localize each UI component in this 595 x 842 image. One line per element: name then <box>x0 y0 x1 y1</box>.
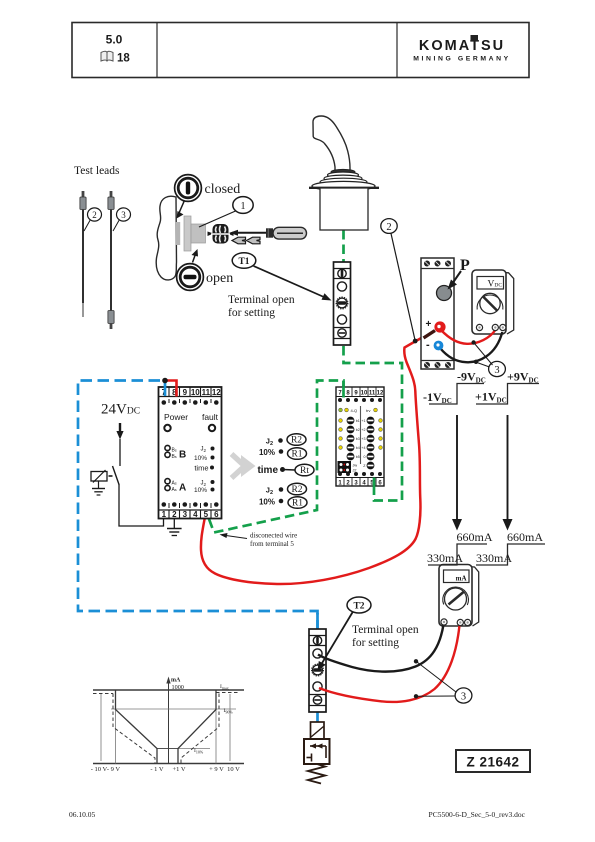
svg-text:4: 4 <box>193 510 198 519</box>
svg-text:24VDC: 24VDC <box>101 402 140 418</box>
svg-text:fault: fault <box>202 412 219 422</box>
svg-text:3: 3 <box>494 365 499 376</box>
svg-text:R2: R2 <box>291 485 302 495</box>
svg-text:PC5500-6-D_Sec_5-0_rev3.doc: PC5500-6-D_Sec_5-0_rev3.doc <box>429 810 526 819</box>
svg-text:1: 1 <box>240 201 245 212</box>
svg-text:mA: mA <box>456 575 467 583</box>
svg-text:660mA: 660mA <box>457 530 493 544</box>
svg-text:+9VDC: +9VDC <box>507 370 539 385</box>
svg-text:trv: trv <box>366 408 370 413</box>
svg-text:-: - <box>426 339 430 351</box>
svg-text:b3: b3 <box>356 437 360 441</box>
svg-text:2: 2 <box>386 222 391 233</box>
svg-text:-1VDC: -1VDC <box>423 390 452 405</box>
svg-text:2: 2 <box>172 510 177 519</box>
svg-text:b4: b4 <box>356 446 360 450</box>
svg-text:b1: b1 <box>356 419 360 423</box>
svg-text:mA: mA <box>171 678 181 684</box>
svg-text:b2: b2 <box>356 428 360 432</box>
svg-text:+2: +2 <box>361 428 365 432</box>
svg-text:open: open <box>206 271 233 286</box>
svg-text:10%: 10% <box>259 448 275 457</box>
svg-text:I90%: I90% <box>224 708 234 715</box>
svg-text:Power: Power <box>164 412 188 422</box>
svg-text:-9VDC: -9VDC <box>457 370 486 385</box>
svg-text:330mA: 330mA <box>476 551 512 565</box>
svg-text:time: time <box>257 465 278 476</box>
svg-text:2: 2 <box>92 210 97 220</box>
svg-text:disconected wire: disconected wire <box>250 532 297 540</box>
svg-text:12: 12 <box>377 391 384 397</box>
svg-text:12: 12 <box>212 388 221 397</box>
svg-text:R1: R1 <box>291 450 302 460</box>
svg-text:06.10.05: 06.10.05 <box>69 810 96 819</box>
svg-text:3: 3 <box>461 692 466 703</box>
svg-text:Jw: Jw <box>353 464 358 468</box>
svg-text:6: 6 <box>214 510 219 519</box>
svg-text:KOMATSU: KOMATSU <box>419 38 505 54</box>
svg-text:+1: +1 <box>361 419 365 423</box>
svg-text:J2: J2 <box>353 469 357 473</box>
svg-text:Test leads: Test leads <box>74 165 120 177</box>
svg-text:4-Q: 4-Q <box>351 408 358 413</box>
svg-text:Imax: Imax <box>220 684 229 691</box>
svg-text:J2: J2 <box>266 437 273 448</box>
svg-text:I10%: I10% <box>194 748 204 755</box>
svg-text:+1 V: +1 V <box>172 766 185 773</box>
svg-text:+: + <box>426 319 432 330</box>
svg-text:1000: 1000 <box>172 684 184 691</box>
svg-text:Terminal open: Terminal open <box>352 624 419 636</box>
svg-text:10%: 10% <box>194 487 207 494</box>
svg-text:T2: T2 <box>353 602 364 612</box>
svg-text:R1: R1 <box>292 499 303 509</box>
svg-text:for setting: for setting <box>228 307 275 319</box>
svg-text:10: 10 <box>191 388 200 397</box>
svg-text:+ 9 V: + 9 V <box>209 766 224 773</box>
svg-text:330mA: 330mA <box>427 551 463 565</box>
svg-text:10 V: 10 V <box>227 766 240 773</box>
svg-text:from terminal 5: from terminal 5 <box>250 540 294 548</box>
svg-text:0: 0 <box>364 455 366 459</box>
svg-text:3: 3 <box>121 210 126 220</box>
svg-text:11: 11 <box>202 388 211 397</box>
svg-text:3: 3 <box>183 510 188 519</box>
svg-text:11: 11 <box>369 391 376 397</box>
svg-text:- 10 V: - 10 V <box>91 766 108 773</box>
svg-text:18: 18 <box>117 53 130 65</box>
svg-text:Z 21642: Z 21642 <box>466 755 519 770</box>
svg-text:- 1 V: - 1 V <box>150 766 164 773</box>
svg-text:Terminal open: Terminal open <box>228 294 295 306</box>
svg-text:J2: J2 <box>266 486 273 497</box>
svg-text:time: time <box>194 464 208 473</box>
svg-text:MINING GERMANY: MINING GERMANY <box>413 56 511 63</box>
svg-text:+3: +3 <box>361 437 365 441</box>
svg-text:10%: 10% <box>259 498 275 507</box>
svg-text:B: B <box>179 450 186 461</box>
svg-text:10%: 10% <box>194 455 207 462</box>
svg-text:9: 9 <box>183 388 188 397</box>
svg-text:5: 5 <box>204 510 209 519</box>
svg-text:T1: T1 <box>238 257 249 267</box>
svg-text:J2: J2 <box>200 447 206 454</box>
svg-text:b5: b5 <box>356 455 360 459</box>
svg-text:+4: +4 <box>361 446 365 450</box>
svg-text:for setting: for setting <box>352 637 399 649</box>
svg-text:A: A <box>179 483 186 494</box>
svg-text:Rt: Rt <box>300 466 309 476</box>
svg-text:660mA: 660mA <box>507 530 543 544</box>
svg-text:+1VDC: +1VDC <box>475 390 507 405</box>
svg-text:R2: R2 <box>291 436 302 446</box>
svg-text:closed: closed <box>205 182 241 197</box>
svg-text:1: 1 <box>162 510 167 519</box>
svg-text:5.0: 5.0 <box>106 33 123 47</box>
svg-text:- 9 V: - 9 V <box>107 766 121 773</box>
svg-text:10: 10 <box>361 391 368 397</box>
